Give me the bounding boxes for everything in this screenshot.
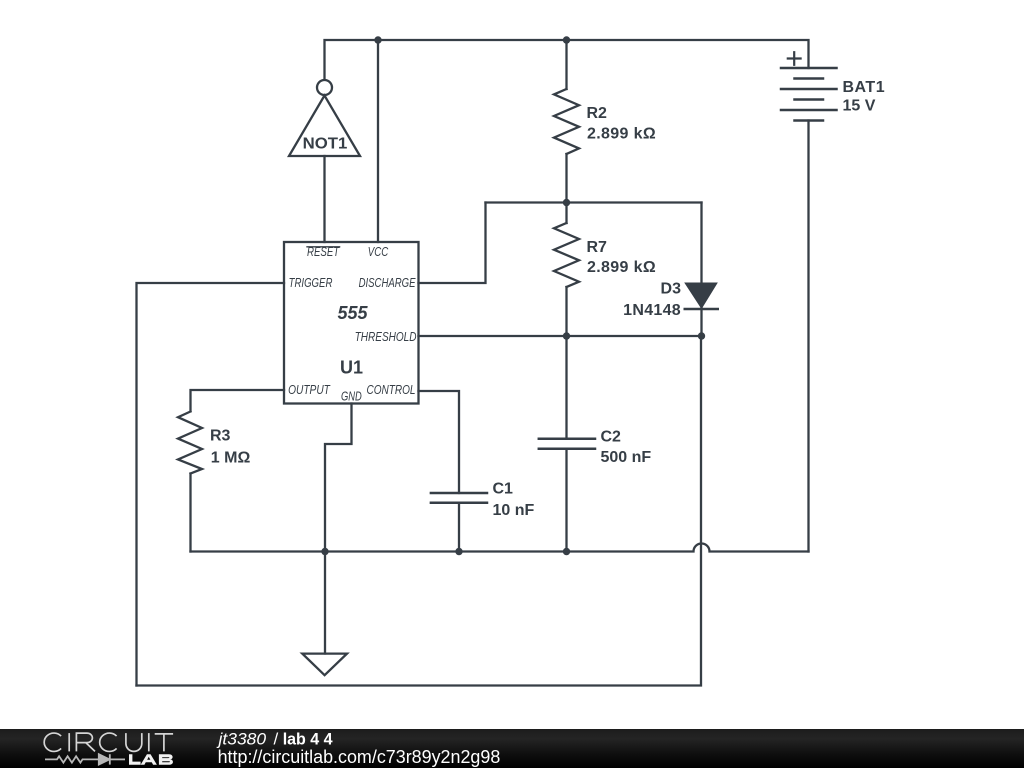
diode D3 [685,284,718,309]
logo CIRCUIT drawn letters [44,733,173,751]
node junction C1 bottom [455,548,462,555]
resistor R7 [554,223,579,287]
op-amp box U1 555 outline [284,242,419,404]
wire VCC pin [377,40,379,242]
wire discharge net horizontal [486,201,702,203]
capacitor C2 [539,439,595,449]
wire DISCHARGE pin [419,203,486,284]
svg-text:15 V: 15 V [843,98,876,115]
wire ground stem [324,552,326,654]
node junction top VCC [374,36,381,43]
node junction R2 top rail [563,36,570,43]
svg-text:C2: C2 [601,429,622,446]
svg-text:2.899 kΩ: 2.899 kΩ [587,125,656,142]
svg-text:GND: GND [341,388,362,403]
wire R7 bottom lead [565,287,567,336]
wire C2 bottom lead [565,449,567,552]
logo LAB drawn letters [129,754,173,765]
wire R2 top lead [565,40,567,89]
node junction ground [321,548,328,555]
wire R2 bottom lead [565,154,567,203]
node junction threshold D3 [698,332,705,339]
resistor R3 [178,412,202,474]
wire R7 top lead [565,203,567,224]
pin label RESET with overline [306,244,340,259]
wire THRESHOLD net [419,335,702,337]
wire D3 anode lead [700,203,702,285]
svg-text:BAT1: BAT1 [843,79,886,96]
svg-text:10 nF: 10 nF [493,502,535,519]
wire CONTROL pin [419,391,460,493]
wire trigger bottom net [137,336,702,686]
node junction C2 bottom [563,548,570,555]
wire GND pin jog [325,404,352,552]
wire C1 bottom lead [458,503,460,552]
svg-text:R7: R7 [587,239,608,256]
wire battery negative lead [807,121,809,552]
svg-text:CONTROL: CONTROL [367,382,416,397]
svg-text:C1: C1 [493,481,514,498]
wire D3 cathode lead [700,307,702,336]
wire OUTPUT pin [191,390,285,411]
svg-text:VCC: VCC [368,244,389,259]
svg-text:U1: U1 [340,358,363,378]
svg-text:http://circuitlab.com/c73r89y2: http://circuitlab.com/c73r89y2n2g98 [218,747,501,767]
capacitor C1 [431,493,487,503]
logo resistor-diode doodle [45,754,125,764]
svg-text:555: 555 [337,303,368,323]
node junction threshold C2 [563,332,570,339]
resistor R2 [554,89,579,154]
svg-text:R2: R2 [587,105,608,122]
wire top rail VCC [325,40,809,80]
svg-text:D3: D3 [661,281,682,298]
battery BAT1 symbol [781,52,837,120]
wire NOT1 input to RESET [323,156,325,242]
svg-text:DISCHARGE: DISCHARGE [359,275,416,290]
wire R3 bottom lead [189,474,191,552]
svg-text:TRIGGER: TRIGGER [289,275,333,290]
wire C2 top lead [565,336,567,439]
svg-text:THRESHOLD: THRESHOLD [355,329,417,344]
svg-text:2.899 kΩ: 2.899 kΩ [587,259,656,276]
svg-text:NOT1: NOT1 [303,135,348,152]
svg-text:R3: R3 [210,428,231,445]
wire TRIGGER pin [137,283,285,686]
ground symbol [302,654,347,676]
svg-text:500 nF: 500 nF [601,449,652,466]
node junction R2/R7 [563,199,570,206]
svg-text:1 MΩ: 1 MΩ [211,449,251,466]
inverter NOT1 [289,80,360,156]
svg-text:OUTPUT: OUTPUT [288,382,331,397]
wire bottom net with hop [191,544,809,552]
svg-text:1N4148: 1N4148 [623,302,681,319]
